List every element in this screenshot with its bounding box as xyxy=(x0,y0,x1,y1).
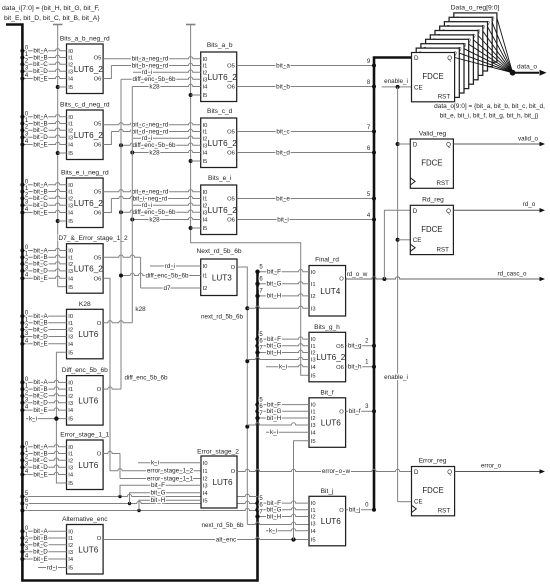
svg-text:bit_D: bit_D xyxy=(33,68,48,75)
wires bit_F/G/H taps to Bit_j xyxy=(258,501,310,503)
wire Bits_c_d_neg_rd bit_D tap xyxy=(22,135,66,137)
svg-text:diff_enc_5b_6b: diff_enc_5b_6b xyxy=(133,76,176,83)
wire Bits_a_b_neg_rd bit_C tap xyxy=(22,62,66,64)
svg-text:diff_enc_5b_6b: diff_enc_5b_6b xyxy=(133,142,176,149)
wire bit_i xyxy=(237,219,374,221)
svg-text:I5: I5 xyxy=(203,93,208,99)
LUT6 Diff_enc_5b_6b xyxy=(67,376,104,426)
svg-text:I1: I1 xyxy=(203,469,208,475)
LUT6_2 Bits_a_b_neg_rd xyxy=(67,44,104,94)
wire rd_i to Next_rd I0 xyxy=(150,265,201,267)
svg-text:I4: I4 xyxy=(68,473,74,479)
svg-text:bit_C: bit_C xyxy=(33,326,48,333)
svg-text:Bits_e_i: Bits_e_i xyxy=(208,175,232,182)
wire diff_enc_5b_6b from Diff_enc O xyxy=(103,387,121,389)
svg-text:I3: I3 xyxy=(68,135,73,141)
svg-text:RST: RST xyxy=(438,508,451,515)
svg-text:I0: I0 xyxy=(68,529,73,535)
svg-text:I2: I2 xyxy=(68,458,73,464)
svg-text:FDCE: FDCE xyxy=(421,225,442,234)
LUT6_2 Bits_g_h xyxy=(309,332,346,382)
svg-text:I1: I1 xyxy=(68,190,73,196)
svg-text:I0: I0 xyxy=(311,501,316,507)
svg-text:Error_stage_2: Error_stage_2 xyxy=(197,449,239,456)
wire alt_enc branch to Bit_f I5 xyxy=(294,441,310,540)
wire D7_&amp;_Error_stage_1_2 bit_C tap xyxy=(22,262,66,264)
svg-text:bit_a: bit_a xyxy=(276,62,290,69)
svg-text:Bits_g_h: Bits_g_h xyxy=(314,324,340,331)
svg-text:D: D xyxy=(413,208,418,215)
svg-text:I4: I4 xyxy=(68,276,74,282)
wire bit_j xyxy=(346,509,374,511)
wire k_i stub to Error_stage_2 I0 xyxy=(138,462,201,464)
svg-text:LUT6_2: LUT6_2 xyxy=(316,353,346,362)
svg-text:I5: I5 xyxy=(68,481,73,487)
svg-text:diff_enc_5b_6b: diff_enc_5b_6b xyxy=(125,375,168,382)
svg-text:LUT6_2: LUT6_2 xyxy=(74,131,104,140)
svg-text:LUT6: LUT6 xyxy=(78,545,98,554)
svg-text:k28: k28 xyxy=(149,83,160,90)
wire bit_H tap 7 xyxy=(22,508,257,510)
svg-text:bit_C: bit_C xyxy=(33,457,48,464)
wire Bits_e_i_neg_rd bit_E tap xyxy=(22,210,66,212)
svg-text:I1: I1 xyxy=(311,344,316,350)
wire enable_i xyxy=(382,86,412,88)
svg-text:I3: I3 xyxy=(68,269,73,275)
wire Bits_e_i_neg_rd bit_D tap xyxy=(22,203,66,205)
svg-text:I3: I3 xyxy=(311,423,316,429)
svg-text:bit_E, bit_D, bit_C, bit_B, bi: bit_E, bit_D, bit_C, bit_B, bit_A} xyxy=(4,15,100,22)
wire k_i stub y=432.3 xyxy=(266,431,309,433)
svg-text:O5: O5 xyxy=(336,344,344,350)
svg-text:I5: I5 xyxy=(68,285,73,291)
svg-text:I5: I5 xyxy=(203,498,208,504)
wire D7_&amp;_Error_stage_1_2 bit_D tap xyxy=(22,269,66,271)
svg-text:bit_H: bit_H xyxy=(151,497,166,504)
bus data_o vertical (right) to FDCE D xyxy=(374,58,412,511)
svg-text:O6: O6 xyxy=(227,151,235,157)
svg-text:I2: I2 xyxy=(311,351,316,357)
wire k28 to Bits_a_b I4 xyxy=(132,84,200,86)
wire next_rd to Final_rd I3 xyxy=(247,306,309,308)
svg-text:bit_h: bit_h xyxy=(348,364,362,371)
svg-text:I1: I1 xyxy=(68,452,73,458)
LUT6 Error_stage_2 xyxy=(201,456,237,508)
wires bit_F/G/H taps to Bit_f xyxy=(258,404,310,406)
svg-text:RST: RST xyxy=(437,246,450,253)
svg-text:I2: I2 xyxy=(68,543,73,549)
wire Alternative_enc bit_E tap xyxy=(22,558,66,560)
svg-text:I3: I3 xyxy=(68,550,73,556)
wires bit_F/G/H taps to Final_rd xyxy=(258,270,310,272)
wire diff_enc_5b_6b vertical xyxy=(120,79,122,389)
svg-text:k_i: k_i xyxy=(151,460,159,467)
svg-text:Q: Q xyxy=(447,469,452,476)
svg-text:I3: I3 xyxy=(311,522,316,528)
svg-text:O: O xyxy=(231,469,236,475)
svg-text:I5: I5 xyxy=(68,417,73,423)
wire Alternative_enc bit_D tap xyxy=(22,551,66,553)
svg-text:Rd_reg: Rd_reg xyxy=(422,197,444,204)
wire Alternative_enc bit_C tap xyxy=(22,544,66,546)
svg-text:O6: O6 xyxy=(336,365,344,371)
LUT6_2 Bits_c_d xyxy=(201,118,238,168)
svg-text:O: O xyxy=(231,265,236,271)
svg-text:I4: I4 xyxy=(68,211,74,217)
svg-text:LUT6_2: LUT6_2 xyxy=(208,206,238,215)
svg-text:I1: I1 xyxy=(311,508,316,514)
svg-text:data_o: data_o xyxy=(517,63,537,70)
svg-text:Bits_c_d_neg_rd: Bits_c_d_neg_rd xyxy=(60,102,110,109)
svg-text:bit_g: bit_g xyxy=(348,343,362,350)
svg-text:O6: O6 xyxy=(94,77,102,83)
wire k28 to Bits_c_d I4 xyxy=(132,150,200,152)
svg-text:rd_i: rd_i xyxy=(47,564,58,571)
wire bit_G tap 6 xyxy=(22,501,257,503)
wire Diff_enc_5b_6b bit_D tap xyxy=(22,401,66,403)
wire Alternative_enc bit_A tap xyxy=(22,530,66,532)
svg-text:bit_b: bit_b xyxy=(276,83,290,90)
svg-text:bit_G: bit_G xyxy=(266,281,281,288)
svg-text:bit_C: bit_C xyxy=(33,127,48,134)
svg-text:I4: I4 xyxy=(311,430,317,436)
wires bit_F/G/H taps to Bits_g_h xyxy=(258,337,310,339)
svg-text:I4: I4 xyxy=(203,491,209,497)
svg-text:I0: I0 xyxy=(311,403,316,409)
wire Bits_a_b_neg_rd bit_D tap xyxy=(22,69,66,71)
svg-text:I3: I3 xyxy=(203,77,208,83)
svg-text:I3: I3 xyxy=(68,335,73,341)
wire alt_enc xyxy=(103,537,309,539)
svg-text:k_i: k_i xyxy=(29,415,37,422)
wire Bits_e_i_neg_rd bit_A tap xyxy=(22,183,66,185)
svg-text:error_o_w: error_o_w xyxy=(322,468,351,475)
wire k_i distribution vertical xyxy=(56,352,66,483)
svg-text:bit_E: bit_E xyxy=(33,209,47,216)
wire K28 bit_D tap xyxy=(22,336,66,338)
wire Bits_c_d_neg_rd bit_C tap xyxy=(22,128,66,130)
svg-text:Q: Q xyxy=(447,55,452,62)
svg-text:bit_H: bit_H xyxy=(267,415,282,422)
svg-text:I3: I3 xyxy=(311,306,316,312)
svg-text:I1: I1 xyxy=(311,282,316,288)
svg-text:rd_o: rd_o xyxy=(523,201,536,208)
wire bit_d_neg_rd xyxy=(103,132,111,145)
svg-text:bit_H: bit_H xyxy=(267,349,282,356)
bus data_i vertical (left) xyxy=(6,25,258,581)
svg-text:LUT6: LUT6 xyxy=(321,419,341,428)
svg-text:k_i: k_i xyxy=(269,528,277,535)
svg-text:I2: I2 xyxy=(203,286,208,292)
svg-text:I4: I4 xyxy=(311,365,317,371)
wire error_stage_1_1 xyxy=(103,451,120,453)
svg-text:Q: Q xyxy=(446,142,451,149)
svg-text:O5: O5 xyxy=(94,190,102,196)
svg-text:enable_i: enable_i xyxy=(384,374,408,381)
svg-text:I4: I4 xyxy=(311,529,317,535)
svg-text:k28: k28 xyxy=(135,306,146,313)
svg-text:bit_j: bit_j xyxy=(349,507,361,514)
svg-text:I4: I4 xyxy=(68,557,74,563)
svg-text:I4: I4 xyxy=(203,218,209,224)
svg-text:bit_E: bit_E xyxy=(33,75,47,82)
wire diff_enc_5b_6b to Bits_a_b I3 xyxy=(121,77,201,79)
wire bit_a xyxy=(237,65,374,67)
wire bit_e xyxy=(237,198,374,200)
svg-text:next_rd_5b_6b: next_rd_5b_6b xyxy=(201,314,244,321)
svg-text:I1: I1 xyxy=(68,255,73,261)
svg-text:O: O xyxy=(97,536,102,542)
svg-text:bit_i: bit_i xyxy=(277,216,289,223)
LUT6 Bit_j xyxy=(309,496,346,546)
svg-text:Q: Q xyxy=(446,208,451,215)
wires Q fan-out to data_o xyxy=(455,58,513,73)
svg-text:bit_D: bit_D xyxy=(33,134,48,141)
register Rd_reg FDCE xyxy=(410,205,453,254)
svg-text:RST: RST xyxy=(438,94,451,101)
const net route to Bits_g_h I5 xyxy=(191,228,309,375)
svg-text:Diff_enc_5b_6b: Diff_enc_5b_6b xyxy=(62,367,108,374)
wire Diff_enc_5b_6b bit_E tap xyxy=(22,408,66,410)
svg-text:k_i: k_i xyxy=(270,429,278,436)
svg-text:error_o: error_o xyxy=(481,462,502,469)
junction I5 Bits_a_b_neg_rd xyxy=(56,85,60,89)
wire Bits_e_i_neg_rd bit_B tap xyxy=(22,189,66,191)
svg-text:I2: I2 xyxy=(68,128,73,134)
svg-text:D: D xyxy=(414,469,419,476)
svg-text:I1: I1 xyxy=(203,197,208,203)
svg-text:Error_reg: Error_reg xyxy=(419,458,447,465)
svg-text:I2: I2 xyxy=(203,136,208,142)
svg-text:bit_E: bit_E xyxy=(33,341,47,348)
svg-text:LUT6: LUT6 xyxy=(78,330,98,339)
LUT6 K28 xyxy=(67,309,104,359)
svg-text:O6: O6 xyxy=(227,218,235,224)
svg-text:O: O xyxy=(97,321,102,327)
svg-text:I0: I0 xyxy=(203,264,208,270)
svg-text:bit_G: bit_G xyxy=(150,490,165,497)
svg-text:I0: I0 xyxy=(68,183,73,189)
wire error_o xyxy=(455,471,540,473)
svg-text:I1: I1 xyxy=(68,122,73,128)
svg-text:Bit_j: Bit_j xyxy=(321,488,334,495)
wire bit_c xyxy=(237,131,374,133)
wire Alternative_enc bit_B tap xyxy=(22,537,66,539)
LUT6_2 Bits_c_d_neg_rd xyxy=(67,110,104,160)
svg-text:rd_i: rd_i xyxy=(165,263,176,270)
svg-text:I1: I1 xyxy=(203,274,208,280)
svg-text:I0: I0 xyxy=(68,381,73,387)
wire bit_e_neg_rd xyxy=(103,190,201,192)
LUT6 Bit_f xyxy=(309,398,346,448)
svg-text:Bits_a_b_neg_rd: Bits_a_b_neg_rd xyxy=(60,36,110,43)
junction I5 Bits_e_i xyxy=(189,226,193,230)
svg-text:I2: I2 xyxy=(311,416,316,422)
wire rd_o xyxy=(453,209,539,211)
svg-text:I2: I2 xyxy=(68,394,73,400)
svg-text:bit_C: bit_C xyxy=(33,393,48,400)
LUT6_2 D7_&amp;_Error_stage_1_2 xyxy=(67,244,104,294)
wire bit_F to Error_stage_2 I3 xyxy=(120,485,201,496)
svg-text:D: D xyxy=(413,142,418,149)
svg-text:Next_rd_5b_6b: Next_rd_5b_6b xyxy=(196,248,241,255)
svg-text:bit_F: bit_F xyxy=(151,482,165,489)
wire bit_a_neg_rd xyxy=(103,57,201,59)
svg-text:LUT6: LUT6 xyxy=(212,478,232,487)
svg-text:I4: I4 xyxy=(203,151,209,157)
svg-text:K28: K28 xyxy=(79,301,91,308)
wire Error_stage_1_1 bit_C tap xyxy=(22,458,66,460)
node data_o xyxy=(510,70,516,76)
wire k_i stub y=530.8 xyxy=(266,529,309,531)
LUT3 Next_rd_5b_6b xyxy=(201,259,237,296)
svg-text:I5: I5 xyxy=(68,566,73,572)
svg-text:I3: I3 xyxy=(68,203,73,209)
register Valid_reg FDCE xyxy=(410,139,453,188)
svg-text:I5: I5 xyxy=(68,151,73,157)
svg-text:bit_D: bit_D xyxy=(33,333,48,340)
svg-text:FDCE: FDCE xyxy=(422,72,443,81)
svg-text:bit_E: bit_E xyxy=(33,141,47,148)
svg-text:Bits_c_d: Bits_c_d xyxy=(207,108,233,115)
svg-text:enable_i: enable_i xyxy=(384,78,408,85)
wire Bits_a_b_neg_rd bit_A tap xyxy=(22,49,66,51)
wire D7_&amp;_Error_stage_1_2 bit_B tap xyxy=(22,255,66,257)
svg-text:I2: I2 xyxy=(311,515,316,521)
LUT6_2 Bits_e_i_neg_rd xyxy=(67,178,104,228)
svg-text:bit_E: bit_E xyxy=(33,407,47,414)
svg-text:I0: I0 xyxy=(203,461,208,467)
svg-text:I1: I1 xyxy=(68,56,73,62)
wire Bits_c_d_neg_rd bit_E tap xyxy=(22,142,66,144)
register stack Data_o_reg[9:1] FDCE xyxy=(454,13,497,62)
wire bit_b xyxy=(237,86,374,88)
svg-text:bit_D: bit_D xyxy=(33,202,48,209)
svg-text:bit_D: bit_D xyxy=(33,400,48,407)
svg-text:O: O xyxy=(97,452,102,458)
svg-text:bit_C: bit_C xyxy=(33,542,48,549)
svg-text:bit_E: bit_E xyxy=(33,556,47,563)
svg-text:bit_C: bit_C xyxy=(33,261,48,268)
svg-text:I4: I4 xyxy=(203,85,209,91)
svg-text:I2: I2 xyxy=(203,70,208,76)
wire diff_enc_5b_6b to Bits_c_d I3 xyxy=(121,143,201,145)
wire Bits_c_d_neg_rd bit_A tap xyxy=(22,115,66,117)
wire bit_i_neg_rd xyxy=(103,199,111,213)
wire rd_i to Bits_e_i I2 xyxy=(133,203,201,205)
svg-text:rd_o_w: rd_o_w xyxy=(347,271,368,278)
svg-text:diff_enc_5b_6b: diff_enc_5b_6b xyxy=(133,209,176,216)
svg-text:O5: O5 xyxy=(227,197,235,203)
wire valid_o xyxy=(453,143,539,145)
wire k28 to Bits_e_i I4 xyxy=(132,217,200,219)
svg-text:I0: I0 xyxy=(68,445,73,451)
svg-text:d7: d7 xyxy=(163,285,171,292)
svg-text:I2: I2 xyxy=(68,262,73,268)
svg-text:I2: I2 xyxy=(311,294,316,300)
svg-text:bit_H: bit_H xyxy=(267,513,282,520)
svg-text:I0: I0 xyxy=(203,190,208,196)
svg-text:error_stage_1_2: error_stage_1_2 xyxy=(147,468,194,475)
svg-text:LUT6: LUT6 xyxy=(321,517,341,526)
svg-text:bit_d: bit_d xyxy=(276,149,290,156)
svg-text:Final_rd: Final_rd xyxy=(315,257,339,264)
svg-text:alt_enc: alt_enc xyxy=(216,536,236,543)
wire Diff_enc_5b_6b bit_B tap xyxy=(22,387,66,389)
svg-text:bit_D: bit_D xyxy=(33,268,48,275)
svg-text:bit_E: bit_E xyxy=(33,275,47,282)
svg-text:O6: O6 xyxy=(94,143,102,149)
svg-text:I3: I3 xyxy=(311,358,316,364)
svg-text:I5: I5 xyxy=(203,226,208,232)
svg-text:rd_i: rd_i xyxy=(142,202,153,209)
svg-text:O5: O5 xyxy=(94,56,102,62)
wire next_rd to Bit_f I3 xyxy=(247,423,309,425)
svg-text:I2: I2 xyxy=(68,62,73,68)
svg-text:k_i: k_i xyxy=(279,364,287,371)
wire Rd_reg CE xyxy=(398,239,411,241)
junction I5 Bits_c_d xyxy=(189,159,193,163)
svg-text:I5: I5 xyxy=(311,537,316,543)
svg-text:Error_stage_1_1: Error_stage_1_1 xyxy=(60,432,109,439)
wire bit_g xyxy=(346,345,374,347)
wire bit_H to Error_stage_2 I5 xyxy=(139,500,201,510)
svg-text:I3: I3 xyxy=(68,465,73,471)
svg-text:O: O xyxy=(339,508,344,514)
svg-text:LUT6: LUT6 xyxy=(78,396,98,405)
svg-text:Alternative_enc: Alternative_enc xyxy=(62,516,108,523)
svg-text:I3: I3 xyxy=(203,210,208,216)
svg-text:I1: I1 xyxy=(311,409,316,415)
svg-text:valid_o: valid_o xyxy=(518,136,538,143)
register Error_reg FDCE xyxy=(412,467,455,516)
wire bit_f xyxy=(346,410,374,412)
svg-text:CE: CE xyxy=(414,498,423,505)
LUT6_2 Bits_e_i xyxy=(201,185,238,235)
svg-text:D7_&_Error_stage_1_2: D7_&_Error_stage_1_2 xyxy=(58,235,128,242)
wire Bits_a_b_neg_rd bit_B tap xyxy=(22,55,66,57)
const net vbar left (to I5 pins of left column) xyxy=(53,24,63,26)
wire k28 vertical xyxy=(131,87,133,323)
LUT4 Final_rd xyxy=(309,266,346,317)
wire K28 bit_A tap xyxy=(22,315,66,317)
wire next_rd to Bits_g_h I3 xyxy=(247,357,309,359)
svg-text:I5: I5 xyxy=(311,373,316,379)
svg-text:LUT6_2: LUT6_2 xyxy=(208,139,238,148)
svg-text:bit_C: bit_C xyxy=(33,61,48,68)
svg-text:I4: I4 xyxy=(68,77,74,83)
svg-text:bit_F: bit_F xyxy=(267,269,281,276)
svg-text:O5: O5 xyxy=(94,255,102,261)
svg-text:bit_E: bit_E xyxy=(33,471,47,478)
svg-text:bit_e, bit_i, bit_f, bit_g, bi: bit_e, bit_i, bit_f, bit_g, bit_h, bit_j… xyxy=(440,113,539,120)
svg-text:LUT6_2: LUT6_2 xyxy=(74,199,104,208)
wire K28 bit_E tap xyxy=(22,343,66,345)
svg-text:bit_f: bit_f xyxy=(349,408,361,415)
svg-text:I5: I5 xyxy=(68,219,73,225)
LUT6 Alternative_enc xyxy=(67,525,104,575)
wire diff_enc_5b_6b to Bits_e_i I3 xyxy=(121,210,201,212)
svg-text:O: O xyxy=(339,276,344,282)
svg-text:I0: I0 xyxy=(68,249,73,255)
wire error_o_w xyxy=(237,469,412,471)
svg-text:I3: I3 xyxy=(203,143,208,149)
svg-text:I1: I1 xyxy=(203,130,208,136)
wire D7_&amp;_Error_stage_1_2 bit_E tap xyxy=(22,276,66,278)
svg-text:rd_i: rd_i xyxy=(142,135,153,142)
wire Diff_enc_5b_6b bit_A tap xyxy=(22,380,66,382)
svg-text:I3: I3 xyxy=(203,483,208,489)
